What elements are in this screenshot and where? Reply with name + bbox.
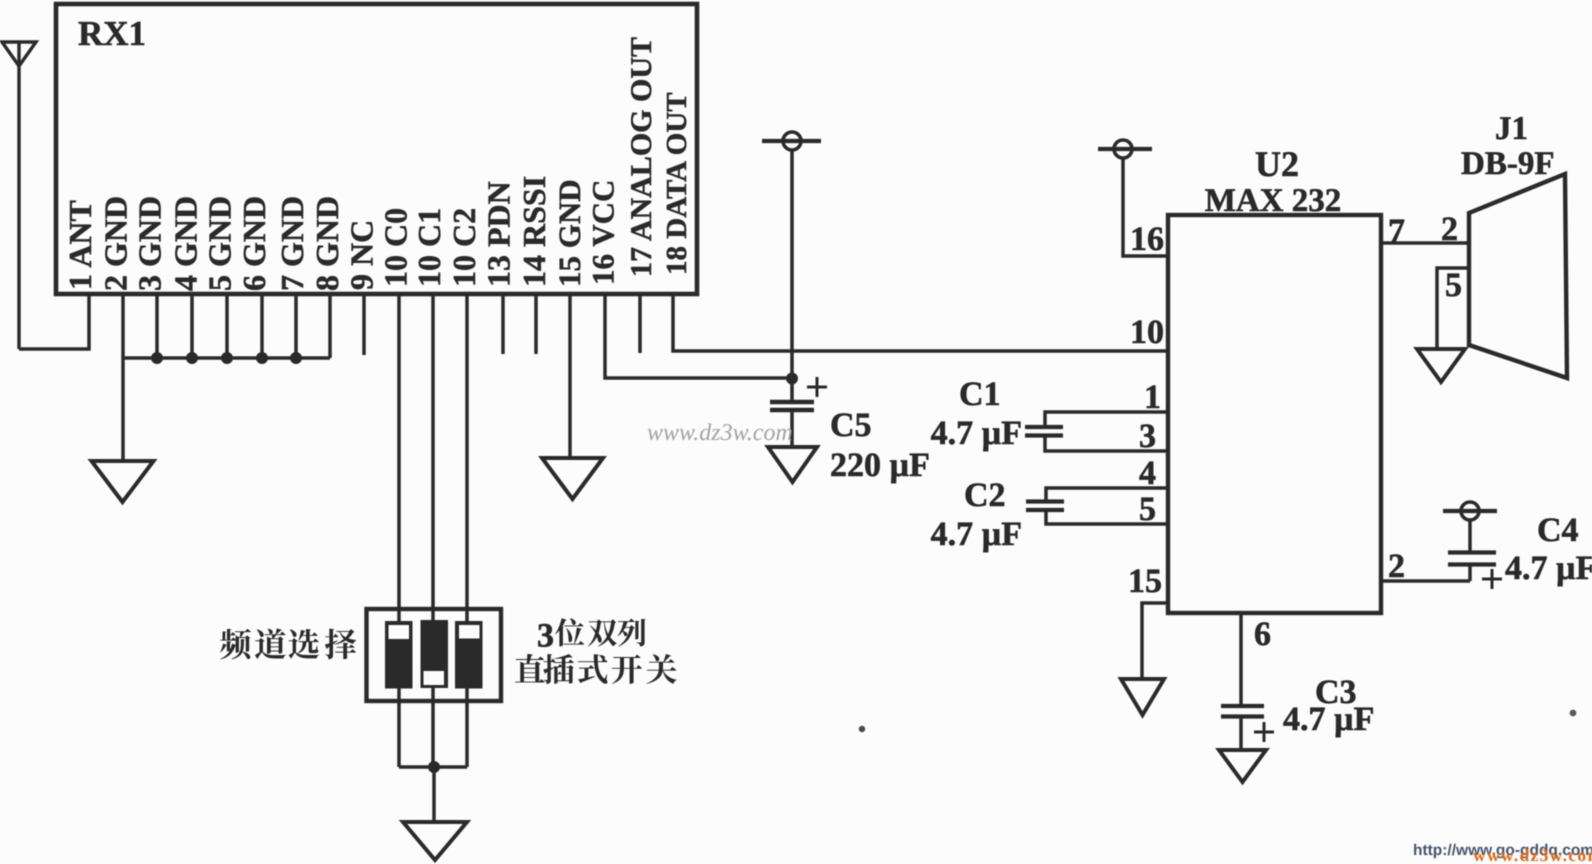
ground (DIP switch) [403, 822, 467, 860]
ground (C3) [1219, 750, 1266, 782]
svg-text:www.dz3w.com: www.dz3w.com [647, 420, 793, 446]
wire pin 16 VCC to C5 node [605, 294, 792, 378]
wire pin 9 NC stub [362, 294, 366, 355]
receiver module RX1 box [56, 4, 697, 294]
speck [1570, 710, 1577, 717]
svg-text:7: 7 [1388, 213, 1405, 250]
svg-text:5 GND: 5 GND [202, 196, 238, 291]
svg-text:1: 1 [1144, 379, 1161, 416]
wire U2 pin 2 to C4 [1381, 579, 1470, 583]
svg-text:17 ANALOG OUT: 17 ANALOG OUT [625, 37, 658, 277]
svg-text:4.7 µF: 4.7 µF [931, 516, 1022, 553]
svg-text:C4: C4 [1537, 512, 1579, 549]
power supply symbol (U2 pin 16) [1098, 140, 1152, 158]
wire U2 pin 7 to J1 pin 2 [1381, 241, 1469, 245]
RX1 pin labels 1-18 [62, 37, 693, 291]
wire pin 10 C1 down [431, 294, 435, 767]
connector J1 DB-9F [1469, 174, 1567, 378]
wire C2 to U2 pin 5 [1046, 512, 1168, 524]
ground (pin 15) [542, 458, 603, 499]
wire U2 pin 15 to ground [1142, 603, 1168, 679]
wire DIP common bus [399, 765, 467, 769]
power supply symbol (C4) [1443, 502, 1497, 520]
label 直插式开关 (DIP switch) [515, 654, 677, 684]
svg-text:1 ANT: 1 ANT [62, 200, 98, 290]
svg-text:4 GND: 4 GND [168, 196, 204, 291]
svg-text:3 GND: 3 GND [132, 196, 168, 291]
wire ground bus pins 3-8 [123, 294, 330, 358]
label 频道选择 (channel select) [220, 629, 356, 660]
svg-text:5: 5 [1445, 267, 1462, 304]
svg-text:13 PDN: 13 PDN [481, 181, 517, 287]
capacitor C1 [1025, 427, 1063, 436]
svg-text:18 DATA OUT: 18 DATA OUT [661, 92, 693, 275]
svg-text:RX1: RX1 [78, 14, 146, 53]
svg-text:4.7 µF: 4.7 µF [1283, 701, 1374, 738]
wire pin 10 C0 down [397, 294, 401, 767]
wire U2 pin 6 down to C3 [1239, 613, 1243, 704]
speck [859, 726, 865, 732]
DIP switch S1 (3-position) [367, 609, 502, 701]
svg-text:6 GND: 6 GND [236, 196, 272, 291]
ground (J1 pin 5) [1417, 349, 1465, 382]
antenna [2, 42, 36, 349]
svg-text:10: 10 [1130, 314, 1164, 351]
wire U2 pin 16 to power [1123, 158, 1168, 256]
ground (C5) [768, 447, 817, 482]
svg-text:3: 3 [1139, 418, 1156, 455]
svg-text:www.dz3w.com: www.dz3w.com [1473, 845, 1592, 864]
wire antenna to pin 1 ANT [19, 294, 89, 349]
capacitor C2 [1026, 502, 1064, 511]
junction node VCC/C5 [786, 373, 798, 385]
wire power symbol down to node [790, 150, 794, 378]
wire U2 pin 1 to C1 [1045, 412, 1168, 426]
svg-text:6: 6 [1254, 616, 1271, 653]
svg-text:MAX 232: MAX 232 [1205, 183, 1342, 219]
junction DIP common [428, 761, 440, 773]
ground (pin 2) [92, 461, 154, 502]
wire pin 10 C2 down [465, 294, 469, 767]
svg-text:7 GND: 7 GND [274, 196, 310, 291]
svg-text:15: 15 [1128, 563, 1162, 600]
svg-text:8 GND: 8 GND [309, 196, 345, 291]
svg-text:15 GND: 15 GND [552, 179, 587, 287]
svg-text:C1: C1 [959, 376, 1001, 413]
svg-text:4: 4 [1139, 455, 1156, 492]
svg-text:2 GND: 2 GND [98, 196, 134, 291]
svg-text:U2: U2 [1255, 144, 1299, 184]
wire C1 to U2 pin 3 [1045, 437, 1168, 451]
wire pin 14 RSSI stub [534, 294, 538, 354]
svg-text:10 C2: 10 C2 [446, 208, 482, 287]
svg-text:2: 2 [1441, 211, 1458, 248]
wire DIP common to ground [432, 767, 436, 822]
svg-text:4.7 µF: 4.7 µF [931, 415, 1022, 452]
ground (U2 pin 15) [1121, 679, 1164, 715]
wire pin 15 GND down [568, 294, 572, 458]
wire U2 pin 4 to C2 [1046, 488, 1168, 500]
svg-text:3: 3 [537, 618, 554, 655]
svg-text:4.7 µF: 4.7 µF [1505, 550, 1592, 587]
svg-text:16: 16 [1130, 221, 1164, 258]
wire pin 13 PDN stub [501, 294, 505, 354]
svg-text:J1: J1 [1495, 111, 1528, 147]
svg-text:10 C0: 10 C0 [378, 208, 414, 287]
svg-text:DB-9F: DB-9F [1461, 146, 1555, 182]
svg-text:10 C1: 10 C1 [411, 208, 447, 287]
capacitor C3 4.7uF [1221, 706, 1274, 750]
wire pin 2 GND down [121, 294, 125, 461]
wire pin 18 DATA OUT to U2 pin 10 [673, 294, 1168, 351]
wire pin 17 ANALOG OUT stub [638, 294, 642, 353]
svg-text:C2: C2 [964, 477, 1006, 514]
IC U2 MAX232 box [1168, 215, 1381, 613]
wire J1 pin 5 to ground [1437, 268, 1469, 349]
svg-text:C5: C5 [830, 407, 872, 444]
svg-text:9 NC: 9 NC [344, 220, 380, 290]
junction dots on ground bus [151, 352, 302, 364]
svg-text:2: 2 [1388, 548, 1405, 585]
svg-text:220 µF: 220 µF [830, 447, 930, 484]
svg-text:14 RSSI: 14 RSSI [516, 176, 552, 287]
capacitor C5 220uF electrolytic [770, 377, 827, 447]
power supply symbol (VCC node) [762, 132, 821, 150]
svg-text:16 VCC: 16 VCC [586, 180, 621, 285]
capacitor C4 4.7uF [1448, 520, 1502, 589]
svg-text:5: 5 [1139, 491, 1156, 528]
